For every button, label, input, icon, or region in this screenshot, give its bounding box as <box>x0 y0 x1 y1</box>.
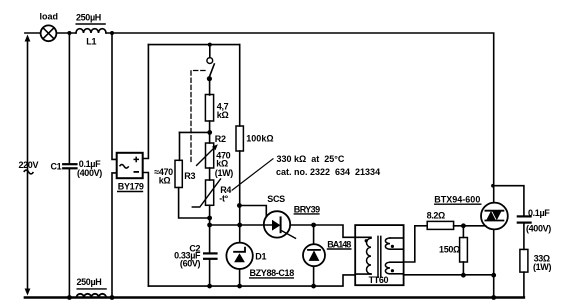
svg-text:BRY39: BRY39 <box>294 205 320 215</box>
svg-text:cat. no. 2322 634 21334: cat. no. 2322 634 21334 <box>276 167 380 177</box>
svg-text:R2: R2 <box>215 134 226 144</box>
svg-text:R3: R3 <box>184 171 195 181</box>
svg-text:8.2Ω: 8.2Ω <box>427 211 445 221</box>
svg-text:100kΩ: 100kΩ <box>246 133 273 143</box>
svg-text:BTX94-600: BTX94-600 <box>434 194 480 204</box>
svg-text:SCS: SCS <box>267 194 285 204</box>
svg-text:(400V): (400V) <box>526 224 551 234</box>
svg-text:kΩ: kΩ <box>159 176 171 186</box>
svg-text:TT60: TT60 <box>369 275 389 285</box>
svg-text:(60V): (60V) <box>180 259 201 269</box>
svg-text:0.1µF: 0.1µF <box>528 208 550 218</box>
svg-text:(1W): (1W) <box>215 168 233 178</box>
svg-text:220V: 220V <box>19 160 39 170</box>
svg-text:L1: L1 <box>86 37 96 47</box>
svg-text:(400V): (400V) <box>77 168 102 178</box>
svg-text:250µH: 250µH <box>76 13 101 23</box>
svg-text:BA148: BA148 <box>327 239 351 249</box>
svg-text:BY179: BY179 <box>118 182 144 192</box>
svg-text:kΩ: kΩ <box>217 110 229 120</box>
svg-text:330 kΩ at 25°C: 330 kΩ at 25°C <box>277 154 345 164</box>
svg-text:-t°: -t° <box>219 194 228 204</box>
svg-text:load: load <box>40 12 59 22</box>
svg-text:250µH: 250µH <box>77 277 102 287</box>
svg-text:D1: D1 <box>255 252 266 262</box>
svg-text:150Ω: 150Ω <box>439 244 460 254</box>
svg-text:BZY88-C18: BZY88-C18 <box>250 268 295 278</box>
svg-text:(1W): (1W) <box>533 262 551 272</box>
svg-text:C1: C1 <box>50 162 61 172</box>
